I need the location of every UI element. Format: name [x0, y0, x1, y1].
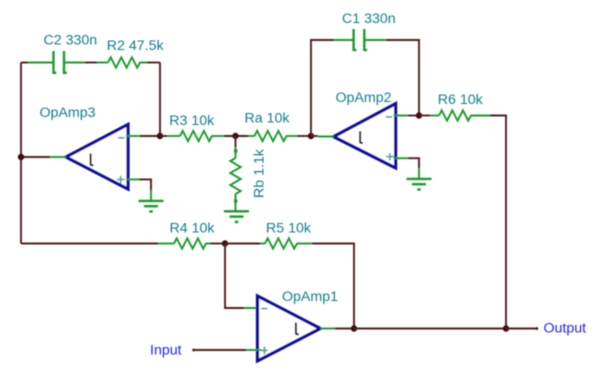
label Rb 1.1k (rotated)	[252, 148, 268, 198]
label R3 10k	[169, 113, 215, 129]
wire bottom row from left rail y=243.5	[21, 243, 158, 245]
wire output stub to label	[506, 327, 538, 330]
label Output	[544, 321, 587, 337]
op-amp U2 OpAmp2 triangle	[334, 104, 396, 168]
wire U3 inverting input stub	[126, 135, 160, 137]
svg-text:R3 10k: R3 10k	[169, 113, 215, 129]
junction node R3/Ra/Rb	[232, 133, 238, 139]
label OpAmp3	[40, 105, 96, 121]
pin plus sign U2	[386, 153, 394, 161]
label OpAmp1	[282, 289, 338, 305]
wire left rail x=21 from top-left corner down to bottom row	[20, 63, 22, 244]
junction output U3 / left rail	[18, 154, 24, 160]
wire U1 output stub	[320, 328, 354, 330]
pin plus sign U3	[117, 176, 125, 184]
op-amp U2 ideal glyph	[360, 131, 363, 143]
label C1 330n	[342, 11, 396, 27]
svg-text:OpAmp3: OpAmp3	[40, 105, 96, 121]
junction node Ra / U2 output	[308, 133, 314, 139]
svg-text:R6 10k: R6 10k	[438, 92, 484, 108]
op-amp U3 OpAmp3 triangle	[66, 125, 128, 190]
resistor R2	[97, 57, 147, 67]
label R4 10k	[170, 221, 216, 237]
wire U2 inverting input stub	[394, 115, 419, 117]
op-amp U1 ideal glyph	[296, 323, 299, 335]
wire middle row maroon segments y=136	[160, 135, 311, 137]
wire output row to node x=506	[354, 328, 506, 330]
label R5 10k	[266, 221, 312, 237]
junction node U2 minus / C1 / R6	[416, 112, 422, 118]
wire R6 to output node x=506	[490, 116, 506, 329]
resistor Rb vertical	[230, 136, 240, 211]
pin minus sign U1	[261, 308, 267, 310]
junction node at R3 left / U3 minus	[157, 133, 163, 139]
resistor R4	[158, 238, 225, 248]
junction node R4/R5/U1 minus	[222, 240, 228, 246]
resistor R3	[167, 131, 224, 141]
pin minus sign U2	[386, 116, 392, 118]
svg-text:R4 10k: R4 10k	[170, 221, 216, 237]
wire C1 feedback loop around U2	[311, 40, 419, 136]
ground under U2	[407, 179, 432, 190]
resistor R6	[419, 110, 490, 120]
pin minus sign U3	[118, 137, 124, 139]
wire R5 to feedback drop x=354	[312, 244, 354, 329]
svg-text:Ra 10k: Ra 10k	[245, 111, 291, 127]
ground under U3	[139, 201, 164, 212]
label OpAmp2	[336, 90, 392, 106]
wire U2 output stub	[311, 135, 334, 138]
svg-text:R2 47.5k: R2 47.5k	[107, 38, 165, 54]
pin plus sign U1	[261, 347, 267, 355]
label R6 10k	[438, 92, 484, 108]
svg-text:Input: Input	[150, 343, 182, 359]
svg-text:C1 330n: C1 330n	[342, 11, 396, 27]
svg-text:OpAmp1: OpAmp1	[282, 289, 338, 305]
junction node U1 output / feedback	[351, 325, 357, 331]
capacitor C2	[28, 51, 85, 74]
wire U2 plus input to ground	[394, 158, 419, 179]
label C2 330n	[44, 33, 98, 49]
wire Input to U1 plus input	[192, 349, 261, 352]
ground under Rb	[224, 211, 249, 222]
label Input	[150, 343, 182, 359]
junction node output / R6 branch	[503, 325, 509, 331]
svg-text:C2 330n: C2 330n	[44, 33, 98, 49]
wire U1 inverting drop from R4/R5 node	[225, 244, 261, 309]
capacitor C1	[334, 29, 386, 51]
wire U3 output stub to left rail	[21, 156, 66, 158]
svg-text:Rb 1.1k: Rb 1.1k	[252, 148, 268, 198]
op-amp U1 OpAmp1 triangle	[258, 296, 321, 361]
wire U3 plus input to ground	[126, 179, 151, 201]
resistor R5	[225, 238, 312, 248]
svg-text:R5 10k: R5 10k	[266, 221, 312, 237]
svg-text:Output: Output	[544, 321, 587, 337]
wire right drop of feedback loop x=160	[159, 63, 161, 137]
label Ra 10k	[245, 111, 291, 127]
label R2 47.5k	[107, 38, 165, 54]
wire top-left feedback row y=62.5 (maroon segments)	[21, 62, 160, 64]
op-amp U3 ideal glyph	[91, 154, 94, 166]
resistor Ra	[248, 131, 297, 141]
svg-text:OpAmp2: OpAmp2	[336, 90, 392, 106]
